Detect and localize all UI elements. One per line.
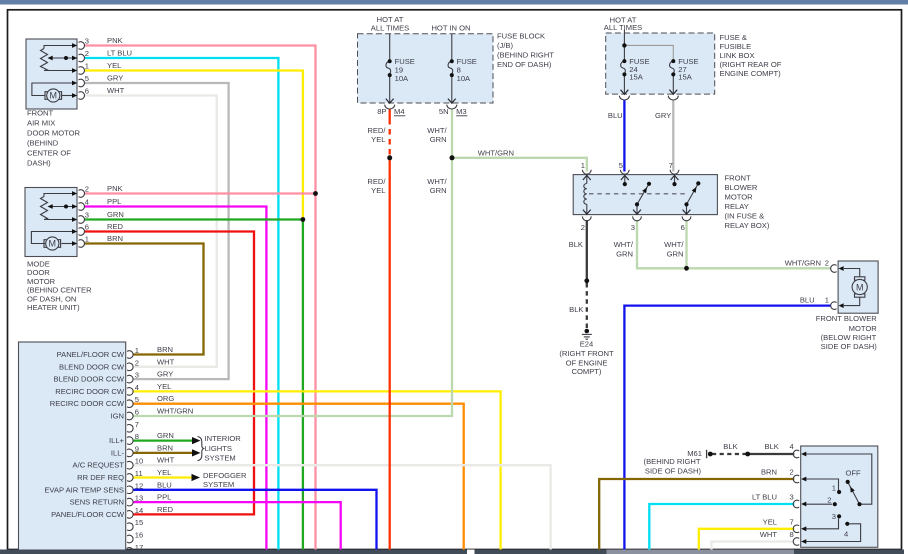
svg-text:PPL: PPL: [157, 493, 171, 502]
svg-text:(BEHIND RIGHT: (BEHIND RIGHT: [497, 50, 554, 59]
svg-text:BLK: BLK: [569, 240, 583, 249]
svg-text:YEL: YEL: [107, 61, 121, 70]
svg-text:YEL: YEL: [371, 186, 385, 195]
svg-text:END OF DASH): END OF DASH): [497, 60, 552, 69]
svg-text:PNK: PNK: [107, 184, 123, 193]
svg-text:BLU: BLU: [157, 480, 172, 489]
svg-text:GRN: GRN: [616, 250, 633, 259]
svg-text:FRONT: FRONT: [725, 174, 752, 183]
svg-text:BLU: BLU: [608, 111, 623, 120]
svg-text:RELAY BOX): RELAY BOX): [725, 221, 770, 230]
svg-text:10A: 10A: [395, 74, 409, 83]
svg-text:1: 1: [85, 62, 89, 71]
svg-text:BLEND DOOR CW: BLEND DOOR CW: [59, 362, 125, 371]
svg-text:3: 3: [832, 512, 836, 521]
svg-text:YEL: YEL: [371, 135, 385, 144]
svg-text:RELAY: RELAY: [725, 202, 749, 211]
svg-text:BLK: BLK: [569, 305, 583, 314]
svg-text:8: 8: [135, 432, 139, 441]
svg-text:(BEHIND RIGHT: (BEHIND RIGHT: [644, 457, 701, 466]
svg-text:E24: E24: [580, 340, 594, 349]
svg-text:WHT/GRN: WHT/GRN: [478, 148, 514, 157]
svg-text:WHT/GRN: WHT/GRN: [785, 258, 821, 267]
svg-text:WHT: WHT: [107, 86, 125, 95]
svg-text:YEL: YEL: [763, 518, 777, 527]
svg-text:WHT: WHT: [760, 530, 778, 539]
svg-text:(BEHIND: (BEHIND: [27, 139, 59, 148]
svg-text:6: 6: [85, 223, 89, 232]
svg-text:2: 2: [135, 358, 139, 367]
svg-text:M4: M4: [394, 107, 405, 116]
svg-text:10A: 10A: [457, 74, 471, 83]
svg-text:BLOWER: BLOWER: [725, 183, 758, 192]
svg-text:MOTOR: MOTOR: [849, 324, 878, 333]
svg-text:GRN: GRN: [157, 431, 174, 440]
svg-text:IGN: IGN: [110, 412, 124, 421]
svg-text:DASH): DASH): [27, 159, 51, 168]
svg-text:MOTOR: MOTOR: [27, 277, 56, 286]
svg-text:PANEL/FLOOR CCW: PANEL/FLOOR CCW: [51, 510, 125, 519]
svg-text:WHT/: WHT/: [614, 240, 634, 249]
svg-text:AIR MIX: AIR MIX: [27, 119, 55, 128]
svg-text:3: 3: [85, 37, 89, 46]
svg-text:15: 15: [135, 518, 143, 527]
svg-text:5N: 5N: [439, 107, 449, 116]
svg-text:9: 9: [135, 444, 139, 453]
svg-text:WHT: WHT: [157, 357, 175, 366]
svg-text:ILL+: ILL+: [109, 436, 125, 445]
svg-text:GRN: GRN: [430, 135, 447, 144]
svg-text:ENGINE COMPT): ENGINE COMPT): [720, 69, 782, 78]
svg-text:5: 5: [85, 74, 89, 83]
svg-text:RED/: RED/: [367, 177, 386, 186]
svg-text:SYSTEM: SYSTEM: [205, 453, 236, 462]
svg-text:BRN: BRN: [157, 345, 173, 354]
svg-text:2: 2: [581, 223, 585, 232]
svg-text:WHT/GRN: WHT/GRN: [157, 407, 193, 416]
svg-text:SYSTEM: SYSTEM: [203, 480, 234, 489]
svg-text:DOOR: DOOR: [27, 268, 50, 277]
svg-text:HOT IN ON: HOT IN ON: [431, 24, 470, 33]
svg-text:10: 10: [135, 457, 143, 466]
svg-text:ALL TIMES: ALL TIMES: [604, 23, 642, 32]
svg-text:(RIGHT FRONT: (RIGHT FRONT: [559, 349, 614, 358]
svg-text:1: 1: [85, 235, 89, 244]
svg-text:LT BLU: LT BLU: [107, 49, 132, 58]
svg-text:2: 2: [790, 468, 794, 477]
svg-text:2: 2: [825, 258, 829, 267]
svg-text:6: 6: [85, 87, 89, 96]
svg-text:GRY: GRY: [107, 74, 123, 83]
svg-text:1: 1: [832, 483, 836, 492]
svg-text:GRN: GRN: [667, 250, 684, 259]
svg-text:SIDE OF DASH): SIDE OF DASH): [821, 342, 878, 351]
svg-text:LIGHTS: LIGHTS: [205, 444, 232, 453]
svg-text:15A: 15A: [629, 73, 643, 82]
svg-text:1: 1: [825, 295, 829, 304]
svg-text:RED/: RED/: [367, 126, 386, 135]
svg-text:SIDE OF DASH): SIDE OF DASH): [645, 467, 702, 476]
svg-text:WHT: WHT: [157, 456, 175, 465]
svg-text:BRN: BRN: [761, 468, 777, 477]
svg-text:11: 11: [135, 469, 143, 478]
svg-text:YEL: YEL: [157, 468, 171, 477]
svg-text:RECIRC DOOR CW: RECIRC DOOR CW: [55, 387, 125, 396]
svg-text:(J/B): (J/B): [497, 41, 514, 50]
svg-text:2: 2: [85, 49, 89, 58]
svg-text:BLU: BLU: [800, 295, 815, 304]
svg-text:ALL TIMES: ALL TIMES: [371, 24, 409, 33]
svg-text:RED: RED: [157, 505, 174, 514]
svg-text:M3: M3: [456, 107, 467, 116]
svg-text:FRONT BLOWER: FRONT BLOWER: [816, 314, 878, 323]
svg-text:7: 7: [135, 420, 139, 429]
svg-text:6: 6: [681, 223, 685, 232]
svg-text:LT BLU: LT BLU: [752, 493, 777, 502]
svg-text:MOTOR: MOTOR: [725, 193, 754, 202]
svg-text:YEL: YEL: [157, 382, 171, 391]
svg-text:(BEHIND CENTER: (BEHIND CENTER: [27, 286, 92, 295]
svg-text:3: 3: [790, 493, 794, 502]
svg-text:4: 4: [790, 442, 794, 451]
svg-text:M: M: [50, 91, 58, 101]
svg-text:BLK: BLK: [723, 442, 737, 451]
svg-text:M: M: [856, 282, 864, 292]
svg-text:3: 3: [85, 211, 89, 220]
svg-text:FUSE &: FUSE &: [720, 33, 747, 42]
svg-text:(RIGHT REAR OF: (RIGHT REAR OF: [720, 60, 782, 69]
svg-text:INTERIOR: INTERIOR: [205, 434, 242, 443]
svg-text:PANEL/FLOOR CW: PANEL/FLOOR CW: [57, 350, 125, 359]
svg-text:GRY: GRY: [655, 111, 671, 120]
svg-text:7: 7: [790, 518, 794, 527]
svg-text:4: 4: [85, 198, 89, 207]
svg-text:WHT/: WHT/: [427, 177, 447, 186]
svg-text:MODE: MODE: [27, 260, 50, 269]
svg-text:(BELOW RIGHT: (BELOW RIGHT: [821, 333, 877, 342]
svg-text:3: 3: [135, 371, 139, 380]
svg-text:EVAP AIR TEMP SENS: EVAP AIR TEMP SENS: [44, 485, 124, 494]
svg-text:1: 1: [581, 161, 585, 170]
svg-text:GRY: GRY: [157, 370, 173, 379]
svg-text:BLK: BLK: [765, 442, 779, 451]
svg-text:BRN: BRN: [107, 234, 123, 243]
svg-text:2: 2: [85, 185, 89, 194]
svg-text:SENS RETURN: SENS RETURN: [70, 498, 124, 507]
svg-text:(IN FUSE &: (IN FUSE &: [725, 212, 765, 221]
svg-text:HOT AT: HOT AT: [377, 15, 404, 24]
svg-text:2: 2: [827, 496, 831, 505]
svg-text:3: 3: [631, 223, 635, 232]
svg-text:GRN: GRN: [107, 210, 124, 219]
svg-text:CENTER OF: CENTER OF: [27, 149, 71, 158]
svg-text:LINK BOX: LINK BOX: [720, 51, 755, 60]
svg-text:4: 4: [135, 383, 139, 392]
svg-text:WHT/: WHT/: [427, 126, 447, 135]
svg-text:14: 14: [135, 506, 143, 515]
svg-text:ORG: ORG: [157, 394, 174, 403]
svg-text:15A: 15A: [678, 73, 692, 82]
svg-text:RR DEF REQ: RR DEF REQ: [77, 473, 124, 482]
svg-text:12: 12: [135, 481, 143, 490]
svg-text:FUSE BLOCK: FUSE BLOCK: [497, 32, 545, 41]
svg-text:4: 4: [844, 529, 848, 538]
svg-text:1: 1: [135, 346, 139, 355]
svg-text:6: 6: [135, 408, 139, 417]
svg-text:5: 5: [619, 161, 623, 170]
svg-text:ILL-: ILL-: [111, 448, 125, 457]
svg-text:PNK: PNK: [107, 36, 123, 45]
svg-text:BLEND DOOR CCW: BLEND DOOR CCW: [54, 375, 125, 384]
svg-text:M: M: [49, 239, 57, 249]
svg-text:DOOR MOTOR: DOOR MOTOR: [27, 129, 81, 138]
svg-text:OF DASH, ON: OF DASH, ON: [27, 294, 76, 303]
svg-text:GRN: GRN: [430, 186, 447, 195]
svg-text:RED: RED: [107, 222, 124, 231]
svg-text:PPL: PPL: [107, 197, 121, 206]
svg-text:13: 13: [135, 494, 143, 503]
svg-text:5: 5: [135, 395, 139, 404]
svg-text:A/C REQUEST: A/C REQUEST: [73, 461, 125, 470]
svg-text:COMPT): COMPT): [572, 367, 602, 376]
svg-text:16: 16: [135, 531, 143, 540]
svg-text:WHT/: WHT/: [664, 240, 684, 249]
svg-text:DEFOGGER: DEFOGGER: [203, 471, 247, 480]
svg-text:7: 7: [669, 161, 673, 170]
svg-text:OFF: OFF: [846, 469, 862, 478]
svg-text:BRN: BRN: [157, 443, 173, 452]
svg-text:HEATER UNIT): HEATER UNIT): [27, 303, 80, 312]
svg-text:FRONT: FRONT: [27, 109, 54, 118]
svg-text:FUSIBLE: FUSIBLE: [720, 42, 752, 51]
svg-text:RECIRC DOOR CCW: RECIRC DOOR CCW: [50, 399, 125, 408]
svg-text:8: 8: [790, 530, 794, 539]
svg-text:OF ENGINE: OF ENGINE: [566, 358, 608, 367]
svg-text:8P: 8P: [377, 107, 386, 116]
